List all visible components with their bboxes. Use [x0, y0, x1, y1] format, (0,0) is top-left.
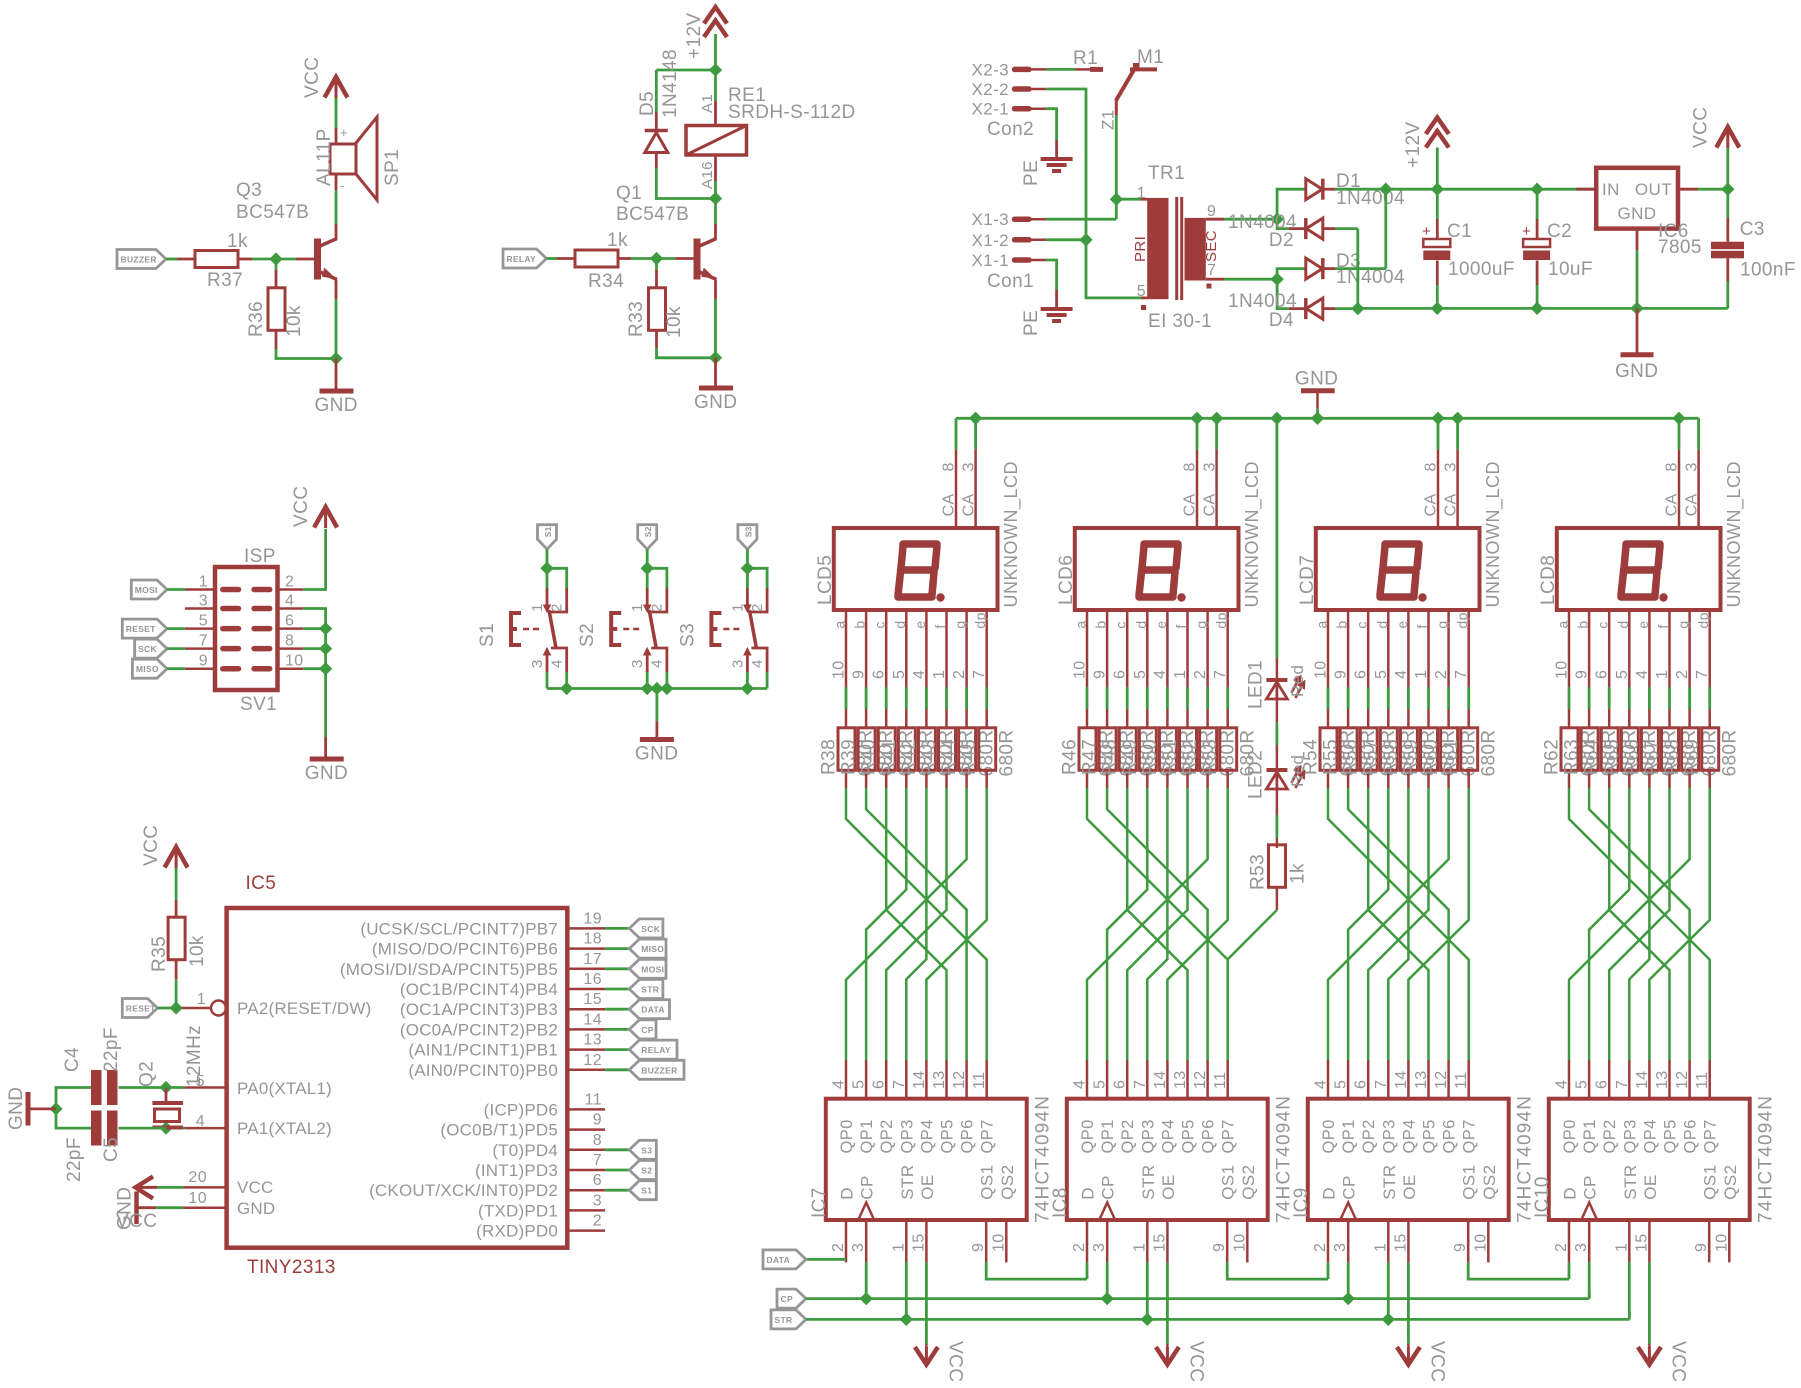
- svg-text:R41: R41: [879, 739, 900, 775]
- svg-text:R43: R43: [919, 739, 940, 775]
- svg-text:R68: R68: [1662, 739, 1683, 775]
- svg-text:LED1: LED1: [1246, 660, 1267, 709]
- svg-text:VCC: VCC: [1185, 1341, 1206, 1382]
- svg-text:6: 6: [1353, 670, 1370, 679]
- svg-text:VCC: VCC: [302, 57, 323, 98]
- svg-text:R64: R64: [1582, 739, 1603, 775]
- svg-text:R48: R48: [1100, 739, 1121, 775]
- svg-text:S3: S3: [677, 623, 698, 647]
- svg-text:14: 14: [1634, 1070, 1651, 1089]
- svg-text:1: 1: [197, 991, 206, 1008]
- svg-text:(OC0A/PCINT2)PB2: (OC0A/PCINT2)PB2: [400, 1020, 558, 1039]
- svg-text:QP3: QP3: [898, 1119, 916, 1153]
- svg-text:R45: R45: [959, 739, 980, 775]
- svg-text:GND: GND: [694, 392, 737, 413]
- svg-text:2: 2: [1553, 1243, 1570, 1252]
- svg-text:D: D: [1561, 1187, 1580, 1200]
- svg-text:7: 7: [891, 1080, 908, 1089]
- svg-text:R67: R67: [1642, 739, 1663, 775]
- svg-text:GND: GND: [6, 1087, 27, 1130]
- svg-text:1k: 1k: [227, 231, 248, 252]
- svg-text:QP4: QP4: [1641, 1119, 1659, 1153]
- svg-text:4: 4: [911, 670, 928, 679]
- svg-text:8: 8: [285, 633, 294, 650]
- svg-text:14: 14: [1393, 1070, 1410, 1089]
- svg-text:f: f: [1173, 624, 1189, 628]
- svg-text:3: 3: [593, 1192, 602, 1209]
- svg-text:QP6: QP6: [959, 1119, 977, 1153]
- svg-text:3: 3: [960, 462, 977, 471]
- svg-text:4: 4: [1313, 1080, 1330, 1089]
- svg-text:Z1: Z1: [1099, 109, 1118, 130]
- svg-text:4: 4: [649, 659, 666, 668]
- svg-text:R1: R1: [1073, 48, 1098, 69]
- svg-text:RESET: RESET: [126, 624, 156, 634]
- svg-text:11: 11: [1212, 1072, 1229, 1089]
- svg-text:5: 5: [1373, 670, 1390, 679]
- svg-text:2: 2: [951, 670, 968, 679]
- svg-text:LED2: LED2: [1246, 750, 1267, 799]
- svg-text:S3: S3: [641, 1145, 652, 1155]
- svg-text:13: 13: [1413, 1070, 1430, 1089]
- svg-text:QS2: QS2: [1721, 1164, 1740, 1199]
- svg-text:9: 9: [1207, 203, 1216, 220]
- svg-text:PA1(XTAL2): PA1(XTAL2): [237, 1119, 332, 1138]
- svg-text:LCD8: LCD8: [1538, 555, 1559, 605]
- svg-text:C3: C3: [1740, 219, 1765, 240]
- svg-text:5: 5: [1137, 283, 1146, 300]
- svg-text:QP5: QP5: [1180, 1119, 1198, 1153]
- svg-text:QP4: QP4: [1159, 1119, 1177, 1153]
- svg-text:MOSI: MOSI: [135, 585, 158, 595]
- svg-text:1: 1: [199, 574, 208, 591]
- svg-text:6: 6: [1112, 670, 1129, 679]
- svg-text:10k: 10k: [187, 935, 208, 967]
- svg-text:g: g: [952, 620, 968, 628]
- svg-text:3: 3: [1091, 1243, 1108, 1252]
- svg-text:2: 2: [1674, 670, 1691, 679]
- svg-text:R57: R57: [1361, 739, 1382, 775]
- svg-text:QP1: QP1: [1340, 1119, 1358, 1153]
- svg-text:e: e: [1153, 620, 1169, 628]
- svg-text:f: f: [932, 624, 948, 628]
- svg-text:1N4004: 1N4004: [1228, 291, 1297, 312]
- svg-text:74HCT4094N: 74HCT4094N: [1756, 1095, 1777, 1223]
- svg-text:D: D: [838, 1187, 857, 1200]
- svg-text:10: 10: [831, 660, 848, 679]
- svg-text:UNKNOWN_LCD: UNKNOWN_LCD: [1483, 461, 1504, 608]
- svg-text:S2: S2: [577, 623, 598, 647]
- svg-text:6: 6: [1353, 1080, 1370, 1089]
- svg-text:SV1: SV1: [240, 694, 277, 715]
- svg-text:+: +: [340, 125, 348, 140]
- svg-text:CP: CP: [858, 1175, 877, 1199]
- svg-text:S1: S1: [543, 526, 553, 537]
- svg-text:9: 9: [593, 1112, 602, 1129]
- svg-text:R35: R35: [149, 936, 170, 972]
- svg-text:CP: CP: [781, 1294, 793, 1304]
- svg-text:14: 14: [583, 1011, 602, 1028]
- svg-text:OE: OE: [1400, 1174, 1419, 1199]
- svg-text:CA: CA: [1442, 493, 1459, 516]
- svg-text:DATA: DATA: [767, 1255, 791, 1265]
- svg-text:R37: R37: [207, 270, 243, 291]
- svg-text:+12V: +12V: [1403, 121, 1424, 168]
- svg-text:+: +: [1522, 223, 1531, 240]
- svg-text:18: 18: [583, 931, 602, 948]
- svg-text:QP4: QP4: [1400, 1119, 1418, 1153]
- svg-text:(UCSK/SCL/PCINT7)PB7: (UCSK/SCL/PCINT7)PB7: [360, 919, 558, 938]
- svg-text:5: 5: [891, 670, 908, 679]
- svg-text:5: 5: [1132, 670, 1149, 679]
- svg-text:15: 15: [583, 991, 602, 1008]
- svg-text:1: 1: [629, 603, 646, 612]
- svg-text:1N4148: 1N4148: [660, 49, 681, 118]
- svg-text:(MOSI/DI/SDA/PCINT5)PB5: (MOSI/DI/SDA/PCINT5)PB5: [340, 960, 558, 979]
- svg-text:12: 12: [583, 1052, 602, 1069]
- svg-text:QP6: QP6: [1441, 1119, 1459, 1153]
- svg-text:IC9: IC9: [1291, 1187, 1312, 1218]
- svg-text:a: a: [1555, 620, 1571, 628]
- svg-text:QP7: QP7: [1461, 1119, 1479, 1153]
- svg-text:e: e: [1635, 620, 1651, 628]
- svg-text:R42: R42: [899, 739, 920, 775]
- svg-text:QS2: QS2: [998, 1164, 1017, 1199]
- svg-text:20: 20: [188, 1169, 207, 1186]
- svg-text:c: c: [1354, 621, 1370, 628]
- svg-text:b: b: [852, 620, 868, 628]
- svg-text:1N4004: 1N4004: [1336, 267, 1405, 288]
- svg-text:4: 4: [549, 659, 566, 668]
- svg-text:QP2: QP2: [1601, 1119, 1619, 1153]
- svg-text:8: 8: [1423, 462, 1440, 471]
- svg-text:R62: R62: [1542, 739, 1563, 775]
- svg-text:TR1: TR1: [1148, 163, 1185, 184]
- svg-text:GND: GND: [635, 744, 678, 765]
- svg-text:QS1: QS1: [1701, 1164, 1720, 1199]
- svg-text:1N4004: 1N4004: [1336, 188, 1405, 209]
- svg-text:GND: GND: [1295, 369, 1338, 390]
- svg-text:1: 1: [931, 670, 948, 679]
- svg-text:Con2: Con2: [987, 119, 1034, 140]
- svg-text:2: 2: [1192, 670, 1209, 679]
- svg-text:QP5: QP5: [1662, 1119, 1680, 1153]
- svg-text:2: 2: [1433, 670, 1450, 679]
- svg-text:12: 12: [1674, 1070, 1691, 1089]
- svg-text:SEC: SEC: [1203, 230, 1220, 262]
- svg-text:7: 7: [1207, 262, 1216, 279]
- svg-text:10: 10: [188, 1190, 207, 1207]
- svg-text:LCD6: LCD6: [1056, 555, 1077, 605]
- svg-text:13: 13: [1654, 1070, 1671, 1089]
- svg-text:QP7: QP7: [1220, 1119, 1238, 1153]
- svg-text:1: 1: [1131, 1243, 1148, 1252]
- svg-text:1: 1: [890, 1243, 907, 1252]
- svg-text:CP: CP: [1340, 1175, 1359, 1199]
- svg-text:QP6: QP6: [1682, 1119, 1700, 1153]
- svg-text:DATA: DATA: [641, 1005, 665, 1015]
- svg-text:19: 19: [583, 910, 602, 927]
- svg-text:16: 16: [583, 971, 602, 988]
- svg-text:R50: R50: [1140, 739, 1161, 775]
- svg-text:6: 6: [871, 1080, 888, 1089]
- svg-text:R60: R60: [1421, 739, 1442, 775]
- svg-text:6: 6: [1594, 1080, 1611, 1089]
- svg-text:R34: R34: [588, 271, 624, 292]
- svg-text:10: 10: [1072, 660, 1089, 679]
- svg-text:7: 7: [971, 670, 988, 679]
- svg-text:GND: GND: [1618, 204, 1657, 223]
- svg-text:PA0(XTAL1): PA0(XTAL1): [237, 1079, 332, 1098]
- svg-text:9: 9: [1452, 1243, 1469, 1252]
- svg-text:PE: PE: [1021, 310, 1042, 336]
- svg-text:9: 9: [1693, 1243, 1710, 1252]
- svg-text:QP1: QP1: [858, 1119, 876, 1153]
- svg-text:7: 7: [1694, 670, 1711, 679]
- svg-text:3: 3: [1332, 1243, 1349, 1252]
- svg-text:(TXD)PD1: (TXD)PD1: [478, 1201, 558, 1220]
- svg-text:IC5: IC5: [246, 873, 277, 894]
- svg-text:EI 30-1: EI 30-1: [1148, 311, 1212, 332]
- svg-text:9: 9: [1574, 670, 1591, 679]
- svg-text:(OC1A/PCINT3)PB3: (OC1A/PCINT3)PB3: [400, 1000, 558, 1019]
- svg-text:R33: R33: [626, 301, 647, 337]
- svg-text:680R: 680R: [1478, 729, 1499, 776]
- svg-text:R55: R55: [1321, 739, 1342, 775]
- svg-text:12MHz: 12MHz: [184, 1025, 205, 1087]
- svg-text:BUZZER: BUZZER: [641, 1065, 677, 1075]
- svg-text:R61: R61: [1441, 739, 1462, 775]
- svg-text:13: 13: [1172, 1070, 1189, 1089]
- svg-text:1: 1: [1654, 670, 1671, 679]
- svg-text:1000uF: 1000uF: [1448, 259, 1515, 280]
- svg-text:S3: S3: [743, 526, 753, 537]
- svg-text:R63: R63: [1562, 739, 1583, 775]
- svg-text:dp: dp: [1213, 612, 1229, 628]
- svg-text:RELAY: RELAY: [507, 254, 537, 264]
- svg-text:10: 10: [1231, 1233, 1248, 1252]
- svg-text:QP3: QP3: [1139, 1119, 1157, 1153]
- svg-text:4: 4: [1634, 670, 1651, 679]
- svg-text:d: d: [1615, 620, 1631, 628]
- svg-text:R36: R36: [246, 301, 267, 337]
- svg-text:Con1: Con1: [987, 271, 1034, 292]
- svg-text:2: 2: [649, 603, 666, 612]
- svg-text:SCK: SCK: [138, 644, 157, 654]
- svg-text:X2-3: X2-3: [971, 60, 1009, 79]
- svg-text:D5: D5: [637, 91, 658, 116]
- svg-text:QS2: QS2: [1239, 1164, 1258, 1199]
- svg-text:9: 9: [970, 1243, 987, 1252]
- svg-text:3: 3: [629, 659, 646, 668]
- svg-text:Q2: Q2: [137, 1061, 158, 1087]
- svg-text:X1-1: X1-1: [971, 251, 1009, 270]
- svg-text:QP0: QP0: [1561, 1119, 1579, 1153]
- svg-text:QP2: QP2: [1119, 1119, 1137, 1153]
- svg-text:3: 3: [1573, 1243, 1590, 1252]
- svg-text:680R: 680R: [1719, 729, 1740, 776]
- svg-text:STR: STR: [641, 985, 659, 995]
- svg-text:6: 6: [1112, 1080, 1129, 1089]
- svg-text:12: 12: [1433, 1070, 1450, 1089]
- svg-text:22pF: 22pF: [101, 1027, 122, 1072]
- svg-text:(ICP)PD6: (ICP)PD6: [484, 1100, 558, 1119]
- svg-text:R46: R46: [1060, 739, 1081, 775]
- svg-text:7: 7: [593, 1152, 602, 1169]
- svg-text:1: 1: [729, 603, 746, 612]
- svg-text:b: b: [1575, 620, 1591, 628]
- svg-text:a: a: [832, 620, 848, 628]
- svg-text:R69: R69: [1682, 739, 1703, 775]
- svg-text:MISO: MISO: [641, 944, 664, 954]
- svg-text:2: 2: [749, 603, 766, 612]
- svg-text:STR: STR: [1380, 1164, 1399, 1199]
- svg-text:QP0: QP0: [1079, 1119, 1097, 1153]
- svg-text:UNKNOWN_LCD: UNKNOWN_LCD: [1242, 461, 1263, 608]
- svg-text:LCD5: LCD5: [815, 555, 836, 605]
- svg-text:VCC: VCC: [944, 1341, 965, 1382]
- svg-text:MOSI: MOSI: [641, 964, 664, 974]
- svg-text:QP7: QP7: [1702, 1119, 1720, 1153]
- svg-text:12: 12: [1192, 1070, 1209, 1089]
- svg-text:d: d: [892, 620, 908, 628]
- svg-text:dp: dp: [972, 612, 988, 628]
- svg-text:5: 5: [199, 613, 208, 630]
- svg-text:QP2: QP2: [1360, 1119, 1378, 1153]
- svg-text:680R: 680R: [996, 729, 1017, 776]
- svg-text:CA: CA: [1664, 493, 1681, 516]
- svg-text:R38: R38: [819, 739, 840, 775]
- svg-text:100nF: 100nF: [1740, 260, 1796, 281]
- svg-text:QP0: QP0: [1320, 1119, 1338, 1153]
- svg-text:3: 3: [1201, 462, 1218, 471]
- svg-text:Red: Red: [1288, 665, 1307, 697]
- svg-text:dp: dp: [1454, 612, 1470, 628]
- svg-text:VCC: VCC: [116, 1211, 157, 1232]
- svg-text:7: 7: [199, 633, 208, 650]
- svg-text:2: 2: [593, 1213, 602, 1230]
- svg-text:SP1: SP1: [382, 149, 403, 186]
- svg-text:AL11P: AL11P: [314, 128, 335, 186]
- svg-text:8: 8: [1664, 462, 1681, 471]
- svg-text:b: b: [1334, 620, 1350, 628]
- svg-text:LCD7: LCD7: [1297, 555, 1318, 605]
- svg-text:3: 3: [850, 1243, 867, 1252]
- svg-text:QS1: QS1: [978, 1164, 997, 1199]
- svg-text:(AIN0/PCINT0)PB0: (AIN0/PCINT0)PB0: [408, 1061, 558, 1080]
- svg-text:10: 10: [990, 1233, 1007, 1252]
- svg-text:6: 6: [593, 1172, 602, 1189]
- svg-text:R44: R44: [939, 739, 960, 775]
- svg-text:7: 7: [1614, 1080, 1631, 1089]
- svg-text:STR: STR: [775, 1315, 793, 1325]
- svg-text:CA: CA: [960, 493, 977, 516]
- svg-text:QP1: QP1: [1099, 1119, 1117, 1153]
- svg-text:R56: R56: [1341, 739, 1362, 775]
- svg-text:3: 3: [1683, 462, 1700, 471]
- svg-text:9: 9: [199, 653, 208, 670]
- svg-text:RELAY: RELAY: [641, 1045, 671, 1055]
- svg-text:QP3: QP3: [1621, 1119, 1639, 1153]
- svg-text:M1: M1: [1137, 47, 1164, 68]
- svg-text:7: 7: [1453, 670, 1470, 679]
- svg-text:4: 4: [285, 593, 294, 610]
- svg-text:10: 10: [1713, 1233, 1730, 1252]
- svg-text:(MISO/DO/PCINT6)PB6: (MISO/DO/PCINT6)PB6: [372, 940, 558, 959]
- svg-text:CA: CA: [941, 493, 958, 516]
- svg-text:D4: D4: [1269, 310, 1294, 331]
- svg-text:(INT1)PD3: (INT1)PD3: [475, 1161, 558, 1180]
- svg-text:-: -: [340, 178, 345, 193]
- svg-text:X1-3: X1-3: [971, 210, 1009, 229]
- svg-text:C1: C1: [1447, 221, 1472, 242]
- svg-text:PRI: PRI: [1132, 236, 1149, 262]
- svg-text:5: 5: [1092, 1080, 1109, 1089]
- svg-text:CP: CP: [1099, 1175, 1118, 1199]
- svg-text:RESET: RESET: [126, 1004, 156, 1014]
- svg-text:3: 3: [199, 593, 208, 610]
- svg-text:(T0)PD4: (T0)PD4: [492, 1141, 558, 1160]
- svg-text:(OC1B/PCINT4)PB4: (OC1B/PCINT4)PB4: [400, 980, 558, 999]
- svg-text:d: d: [1374, 620, 1390, 628]
- svg-text:SRDH-S-112D: SRDH-S-112D: [728, 102, 856, 123]
- svg-text:VCC: VCC: [1691, 107, 1712, 148]
- svg-text:BUZZER: BUZZER: [121, 255, 157, 265]
- svg-text:IC8: IC8: [1050, 1187, 1071, 1218]
- svg-text:UNKNOWN_LCD: UNKNOWN_LCD: [1724, 461, 1745, 608]
- svg-text:PA2(RESET/DW): PA2(RESET/DW): [237, 999, 372, 1018]
- svg-text:1: 1: [1172, 670, 1189, 679]
- svg-text:PE: PE: [1021, 160, 1042, 186]
- svg-text:d: d: [1133, 620, 1149, 628]
- svg-text:10k: 10k: [284, 305, 305, 337]
- svg-text:9: 9: [1211, 1243, 1228, 1252]
- svg-text:12: 12: [951, 1070, 968, 1089]
- svg-text:QS1: QS1: [1219, 1164, 1238, 1199]
- svg-text:IC7: IC7: [809, 1187, 830, 1218]
- svg-text:2: 2: [1312, 1243, 1329, 1252]
- svg-text:VCC: VCC: [1667, 1341, 1688, 1382]
- svg-text:QS1: QS1: [1460, 1164, 1479, 1199]
- svg-text:14: 14: [1152, 1070, 1169, 1089]
- svg-text:3: 3: [729, 659, 746, 668]
- svg-text:SCK: SCK: [641, 924, 660, 934]
- svg-text:R47: R47: [1080, 739, 1101, 775]
- svg-text:11: 11: [1453, 1072, 1470, 1089]
- svg-text:1: 1: [1613, 1243, 1630, 1252]
- svg-text:D: D: [1079, 1187, 1098, 1200]
- svg-text:QP0: QP0: [838, 1119, 856, 1153]
- svg-text:S1: S1: [477, 623, 498, 647]
- svg-text:R40: R40: [859, 739, 880, 775]
- svg-text:13: 13: [583, 1032, 602, 1049]
- svg-text:VCC: VCC: [1426, 1341, 1447, 1382]
- svg-text:8: 8: [1182, 462, 1199, 471]
- svg-text:9: 9: [1092, 670, 1109, 679]
- svg-text:11: 11: [585, 1091, 602, 1108]
- svg-text:8: 8: [941, 462, 958, 471]
- svg-text:X2-1: X2-1: [971, 100, 1009, 119]
- svg-text:QP2: QP2: [878, 1119, 896, 1153]
- svg-text:S1: S1: [641, 1186, 652, 1196]
- svg-text:GND: GND: [315, 395, 358, 416]
- svg-text:OE: OE: [1641, 1174, 1660, 1199]
- svg-text:(RXD)PD0: (RXD)PD0: [476, 1222, 558, 1241]
- svg-text:R52: R52: [1180, 739, 1201, 775]
- svg-text:R49: R49: [1120, 739, 1141, 775]
- svg-text:(AIN1/PCINT1)PB1: (AIN1/PCINT1)PB1: [408, 1041, 558, 1060]
- svg-text:4: 4: [1072, 1080, 1089, 1089]
